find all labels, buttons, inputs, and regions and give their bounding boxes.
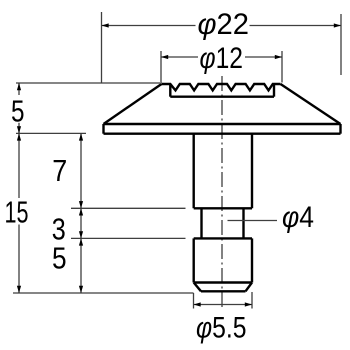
dim line 5 lower bbox=[80, 238, 82, 293]
upper shank left edge bbox=[192, 134, 194, 209]
upper shank right edge bbox=[251, 134, 253, 209]
ext line phi22 right bbox=[340, 14, 342, 75]
svg-text:15: 15 bbox=[5, 195, 29, 230]
knurl ring right edge bbox=[273, 84, 275, 97]
chamfer line bbox=[194, 281, 252, 283]
ext line phi12 right bbox=[281, 51, 283, 83]
dim line 7 bbox=[80, 133, 82, 208]
arrow phi5.5 right bbox=[245, 302, 252, 306]
arrow phi12 left bbox=[161, 55, 168, 59]
ext line head top level bbox=[16, 82, 160, 84]
ext line phi22 left bbox=[101, 12, 103, 83]
chamfer right bbox=[246, 283, 253, 292]
knurl ring left edge bbox=[169, 84, 171, 97]
svg-text:φ22: φ22 bbox=[198, 8, 250, 41]
knurl ring bottom edge bbox=[170, 95, 274, 97]
neck right edge bbox=[242, 208, 244, 238]
leader line phi4 bbox=[228, 220, 278, 222]
cone slope left bbox=[104, 84, 162, 124]
ext line neck bottom level bbox=[71, 237, 186, 239]
dim line 3 bbox=[80, 208, 82, 238]
thin dimension and extension lines bbox=[13, 12, 341, 309]
ext line phi5.5 left bbox=[193, 293, 195, 309]
dim line phi22 bbox=[102, 25, 196, 27]
svg-text:5: 5 bbox=[11, 93, 25, 128]
arrow 3 bottom bbox=[79, 231, 83, 238]
upper shoulder bbox=[194, 207, 252, 209]
tip section left edge bbox=[192, 238, 194, 282]
tip section right edge bbox=[251, 238, 253, 282]
arrow 15 top bbox=[17, 133, 21, 140]
dim line 15 bbox=[18, 133, 20, 198]
dim line phi12 bbox=[161, 56, 198, 58]
svg-text:φ4: φ4 bbox=[282, 201, 314, 234]
arrow phi5.5 left bbox=[194, 302, 201, 306]
serrated top zigzag bbox=[162, 84, 281, 90]
ext line bottom level bbox=[13, 292, 194, 294]
arrow phi22 left bbox=[102, 23, 109, 27]
arrow 5lower top bbox=[79, 238, 83, 245]
tip bottom edge bbox=[201, 290, 246, 292]
ext line shoulder level bbox=[71, 207, 186, 209]
flange left edge bbox=[102, 124, 104, 134]
dim line 5 head bbox=[18, 83, 20, 95]
dim line phi5.5 bbox=[194, 304, 253, 306]
svg-text:φ12: φ12 bbox=[200, 42, 244, 75]
ext line flange bottom level bbox=[16, 132, 86, 134]
lower shoulder bbox=[194, 237, 252, 239]
screw head outline bbox=[104, 84, 341, 134]
shaft outline bbox=[194, 134, 252, 292]
arrow 7 top bbox=[79, 133, 83, 140]
svg-text:φ5.5: φ5.5 bbox=[196, 311, 247, 344]
arrowheads bbox=[17, 23, 341, 306]
svg-text:7: 7 bbox=[52, 153, 67, 188]
ext line phi5.5 right bbox=[251, 292, 253, 309]
flange top edge bbox=[104, 123, 341, 125]
arrow 5head bottom bbox=[17, 126, 21, 133]
arrow 15 bottom bbox=[17, 286, 21, 293]
ext line phi12 left bbox=[160, 51, 162, 83]
flange bottom edge bbox=[104, 132, 341, 134]
arrow 5lower bottom bbox=[79, 286, 83, 293]
centerline bbox=[221, 76, 223, 307]
arrow 7 bottom bbox=[79, 201, 83, 208]
cone slope right bbox=[281, 84, 341, 124]
arrow 5head top bbox=[17, 83, 21, 90]
arrow 3 top bbox=[79, 208, 83, 215]
neck left edge bbox=[200, 208, 202, 238]
svg-text:5: 5 bbox=[52, 240, 67, 275]
chamfer left bbox=[194, 283, 201, 292]
flange right edge bbox=[339, 124, 341, 134]
arrow phi12 right bbox=[275, 55, 282, 59]
arrow phi22 right bbox=[334, 23, 341, 27]
